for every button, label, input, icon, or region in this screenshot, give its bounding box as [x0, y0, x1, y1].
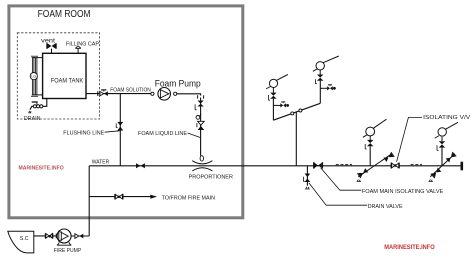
foam liquid line valve — [195, 101, 204, 110]
monitor C — [363, 119, 387, 137]
pipe: monitor A side stub — [273, 104, 280, 106]
filling cap — [75, 46, 81, 48]
pipe: flushing line — [119, 94, 121, 166]
leader flushing line — [105, 131, 120, 132]
monitor D valve — [437, 141, 445, 150]
foam tank — [43, 53, 86, 98]
foam pump — [158, 88, 171, 101]
leader foam liquid line — [188, 133, 201, 138]
pipe: fire pump riser — [88, 166, 90, 236]
pipe: monitor A riser — [272, 99, 274, 120]
level gauge LG — [30, 73, 37, 80]
monitor A hose valve — [280, 102, 289, 108]
pipe: to/from fire main — [89, 196, 150, 198]
hydrant valve D upper — [446, 152, 457, 163]
svg-text:FOAM LIQUID LINE: FOAM LIQUID LINE — [138, 131, 187, 137]
svg-text:FOAM TANK: FOAM TANK — [51, 78, 83, 84]
svg-text:PROPORTIONER: PROPORTIONER — [189, 174, 233, 180]
pipe: monitor B riser — [319, 81, 321, 104]
pipe: foam solution line — [86, 93, 151, 95]
pipe: water / foam main line — [89, 165, 461, 167]
hydrant valve C lower — [357, 168, 368, 178]
flanged joint on foam liquid line — [198, 95, 204, 98]
pipe: monitor A stem — [272, 87, 274, 92]
leader foam main isolating valve — [321, 168, 362, 190]
grate D — [429, 180, 433, 182]
drain valve on tank — [32, 102, 43, 108]
vent valve — [47, 43, 56, 49]
drain grate — [28, 111, 31, 113]
pipe: hydrant diagonal C — [358, 154, 392, 177]
svg-text:vent: vent — [41, 38, 55, 45]
union 1 — [291, 112, 294, 115]
foam main end cap — [460, 162, 463, 171]
drain grate main — [305, 187, 310, 189]
flange on tank outlet — [97, 91, 99, 96]
fire pump — [57, 229, 71, 245]
pipe: foam liquid line vertical — [200, 98, 202, 156]
heat tracing dashes 2 — [411, 164, 422, 166]
monitor D — [435, 122, 458, 138]
pipe: cluster drop to main — [295, 112, 297, 166]
svg-text:DRAIN: DRAIN — [24, 116, 41, 122]
monitor B — [313, 56, 339, 71]
svg-text:FOAM MAIN ISOLATING VALVE: FOAM MAIN ISOLATING VALVE — [362, 189, 444, 195]
svg-text:MARINESITE.INFO: MARINESITE.INFO — [19, 165, 65, 171]
pipe: vent stem — [51, 49, 53, 54]
pipe: hydrant diagonal D — [430, 154, 455, 177]
flushing line valve — [116, 122, 123, 131]
pipe: drain drop from main — [306, 166, 308, 186]
foam skid dashed boundary — [17, 33, 99, 119]
heat tracing dashes 1 — [336, 164, 352, 166]
foam room border — [9, 6, 243, 218]
foam pump suction flange — [151, 92, 154, 95]
svg-text:MARINESITE.INFO: MARINESITE.INFO — [384, 244, 434, 251]
pipe: pump discharge to foam liquid line — [177, 94, 201, 96]
leader isolating v/v — [397, 117, 422, 161]
pipe: monitor B side stub — [320, 87, 327, 89]
drain valve — [304, 174, 311, 183]
pipe: monitor C riser — [369, 146, 371, 166]
union 2 — [299, 109, 302, 112]
svg-text:WATER: WATER — [92, 159, 109, 165]
pipe: drain from tank bottom — [43, 99, 47, 107]
monitor B hose valve — [327, 85, 336, 91]
svg-text:ISOLATING V/V: ISOLATING V/V — [423, 115, 470, 121]
pipe: sea suction — [34, 235, 58, 237]
grate C — [357, 180, 361, 182]
proportioner — [192, 161, 212, 171]
leader drain valve — [309, 183, 367, 205]
monitor C valve — [365, 140, 373, 149]
level gauge column — [31, 56, 43, 96]
hydrant valve C upper — [383, 152, 394, 162]
foam pump discharge flange — [174, 92, 177, 95]
svg-text:FIRE PUMP: FIRE PUMP — [54, 248, 82, 254]
pipe: monitor C stem — [369, 136, 371, 140]
foam main isolating valve — [314, 162, 323, 168]
fire main valve — [115, 194, 123, 199]
sea chest — [8, 231, 34, 253]
svg-text:DRAIN VALVE: DRAIN VALVE — [368, 204, 403, 210]
proportioner inlet drop — [200, 156, 203, 161]
isolating valve — [391, 163, 399, 169]
pipe: monitor B stem — [319, 70, 321, 75]
pipe: drain outlet stub — [30, 106, 33, 109]
sea suction valve — [45, 233, 56, 238]
monitor A valve — [269, 93, 277, 101]
svg-text:TO/FROM FIRE MAIN: TO/FROM FIRE MAIN — [162, 196, 215, 202]
svg-text:FLUSHING LINE: FLUSHING LINE — [63, 130, 104, 136]
spring loaded fitting — [196, 114, 201, 119]
screw-down non-return valve — [197, 121, 204, 130]
pipe: monitor D stem — [441, 137, 443, 141]
pipe: cross connector diagonal — [273, 103, 320, 120]
hydrant valve D lower — [431, 167, 442, 178]
water line valve — [136, 163, 145, 168]
fire pump discharge check valve — [75, 234, 83, 239]
monitor A — [266, 75, 288, 89]
pipe: filling cap stem — [77, 48, 79, 53]
pipe: fire pump discharge — [71, 235, 90, 237]
svg-text:FOAM SOLUTION: FOAM SOLUTION — [110, 87, 151, 93]
arrow to fire main — [150, 195, 157, 199]
monitor B valve — [315, 75, 323, 84]
svg-text:S.C: S.C — [20, 236, 29, 242]
svg-text:FOAM ROOM: FOAM ROOM — [38, 8, 91, 20]
svg-text:FILLING CAP: FILLING CAP — [66, 42, 99, 48]
pipe: monitor D riser — [441, 148, 443, 166]
svg-text:Foam Pump: Foam Pump — [155, 78, 201, 88]
tank outlet valve — [100, 90, 108, 96]
svg-text:LG: LG — [31, 75, 36, 79]
